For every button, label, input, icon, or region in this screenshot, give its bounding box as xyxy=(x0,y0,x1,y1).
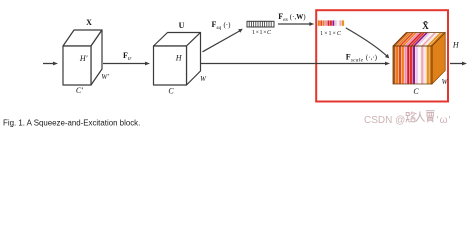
cube X (input tensor) xyxy=(63,30,102,85)
watermark glyph Lu xyxy=(406,112,417,123)
scaled cube right face xyxy=(432,33,445,85)
watermark CSDN xyxy=(364,115,405,126)
svg-text:W′: W′ xyxy=(101,73,109,81)
watermark glyph Jia xyxy=(426,111,435,122)
svg-text:C: C xyxy=(168,86,174,95)
squeeze diagonal arrow xyxy=(203,29,243,52)
watermark glyph Ren xyxy=(416,112,425,122)
svg-text:CSDN @: CSDN @ xyxy=(364,115,405,126)
watermark quotes and omega xyxy=(437,115,452,126)
svg-text:X: X xyxy=(86,18,92,27)
F_ex arrow xyxy=(278,22,314,26)
scaled output cube X~ : top face stripes xyxy=(393,33,445,47)
output arrow xyxy=(450,62,467,66)
squeeze output box 1x1xC xyxy=(247,21,274,27)
excitation output colored box 1x1xC xyxy=(318,20,345,26)
red highlight rectangle xyxy=(316,10,448,101)
scaled cube front face stripes xyxy=(393,46,432,84)
svg-text:'ω': 'ω' xyxy=(437,115,452,126)
scale diagonal arrow xyxy=(346,28,389,58)
svg-text:C: C xyxy=(413,87,419,96)
svg-text:C′: C′ xyxy=(76,86,83,95)
svg-text:U: U xyxy=(179,21,185,30)
svg-text:H′: H′ xyxy=(79,54,88,63)
svg-text:Fig. 1. A Squeeze-and-Excitati: Fig. 1. A Squeeze-and-Excitation block. xyxy=(3,118,140,127)
svg-text:1×1×C: 1×1×C xyxy=(320,31,342,37)
long skip arrow U to scaled cube xyxy=(201,62,391,66)
cube U xyxy=(154,33,201,86)
scaled cube outline xyxy=(393,33,445,85)
F_tr arrow xyxy=(103,62,150,66)
svg-text:X̃: X̃ xyxy=(422,21,429,31)
svg-text:1×1×C: 1×1×C xyxy=(252,30,272,36)
input arrow xyxy=(43,62,58,66)
